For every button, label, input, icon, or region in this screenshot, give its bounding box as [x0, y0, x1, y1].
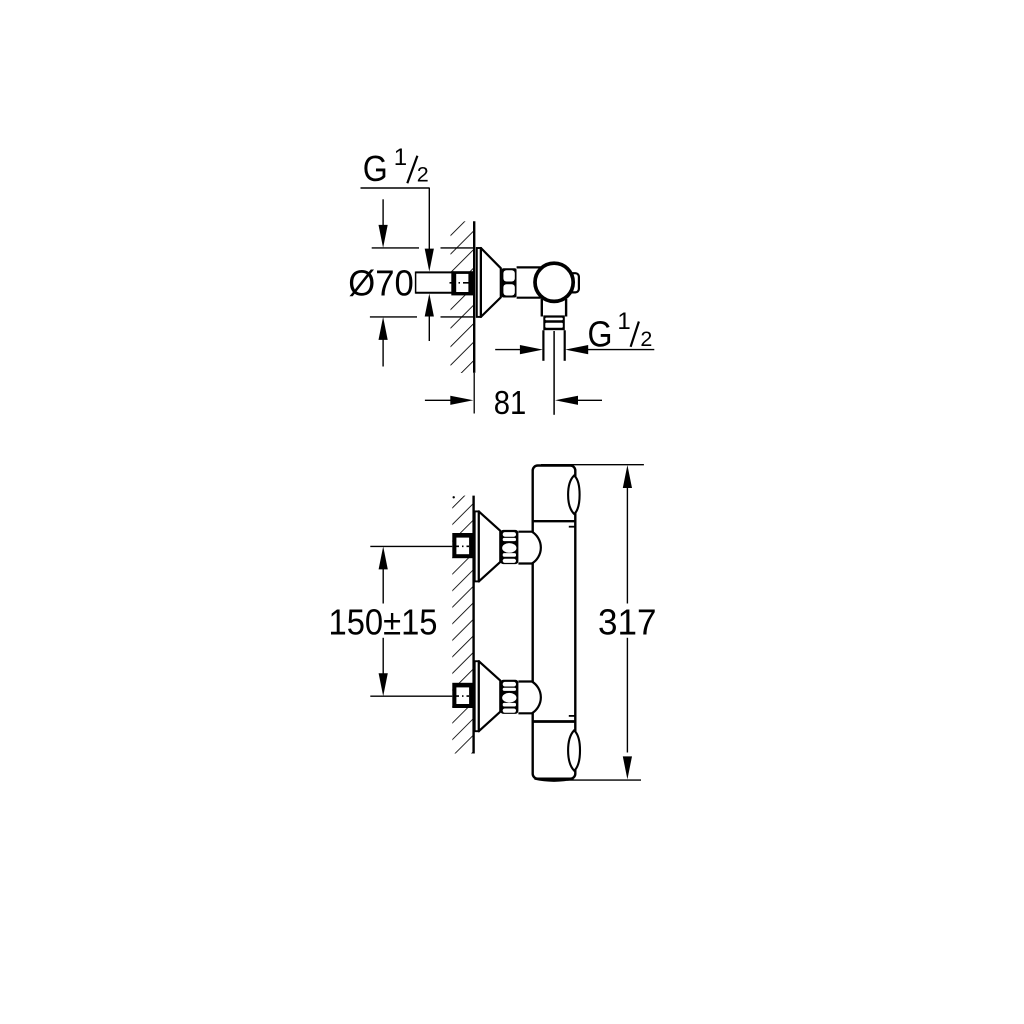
svg-text:317: 317 — [598, 602, 657, 643]
wall hatching (bottom view) — [452, 496, 473, 754]
svg-text:150±15: 150±15 — [329, 602, 438, 643]
outlet neck below circle — [542, 299, 566, 317]
nipple centerline (dash-dot) — [450, 282, 471, 284]
escutcheon cone (top view) — [481, 248, 501, 317]
lower inlet assembly — [452, 661, 541, 731]
hose connection rings — [543, 315, 565, 330]
wall nut (square, top view) — [451, 271, 474, 295]
wall line (bottom view) — [472, 496, 474, 754]
hatch dot — [453, 496, 455, 498]
thermostat valve body circle — [535, 263, 573, 301]
hex nut — [500, 530, 518, 564]
button capsule (bottom) — [568, 730, 580, 770]
connector cylinder (nut to valve) — [517, 269, 543, 297]
body bottom curve — [535, 779, 574, 781]
escutcheon flange (top view) — [477, 248, 481, 317]
G1/2 nipple pipe stub — [416, 272, 454, 292]
svg-text:G: G — [363, 148, 388, 189]
square centerline dash — [453, 545, 469, 547]
wall nut square — [452, 533, 474, 558]
top inner tick — [569, 526, 576, 528]
svg-text:1: 1 — [394, 144, 407, 171]
svg-text:1: 1 — [617, 308, 630, 335]
wall line (top view) — [473, 221, 475, 372]
dimension Ø70 (escutcheon diameter) — [372, 247, 419, 249]
escutcheon cone — [479, 511, 501, 581]
escutcheon flange — [475, 511, 479, 581]
dimension 81 (wall to outlet center) — [425, 399, 452, 401]
hex nut (top view) — [502, 268, 517, 297]
dimension 317 (body height) — [541, 464, 644, 466]
valve end cap (right of circle) — [569, 273, 579, 292]
svg-text:2: 2 — [640, 327, 652, 351]
button capsule (top) — [568, 476, 580, 515]
bottom inner tick — [569, 715, 576, 717]
wall hatching (top view) — [451, 221, 475, 373]
upper inlet assembly — [452, 511, 541, 581]
svg-text:G: G — [588, 314, 613, 355]
body bottom cap line — [533, 720, 576, 723]
svg-text:81: 81 — [494, 384, 527, 421]
wall surface extension line (for 81 dim) — [473, 373, 475, 414]
connector dome boss — [518, 532, 540, 564]
connector neck — [518, 532, 532, 563]
main mixer body — [533, 466, 576, 779]
dimension 150±15 (inlet spacing) — [370, 545, 452, 547]
svg-text:2: 2 — [417, 163, 429, 187]
label G 1/2 (shower hose outlet) — [520, 345, 543, 354]
svg-text:Ø70: Ø70 — [348, 262, 414, 303]
pipe centerline / extension for 81 dim — [553, 331, 555, 415]
shower hose pipe (cut off) — [545, 330, 564, 361]
body top cap line — [533, 520, 576, 522]
